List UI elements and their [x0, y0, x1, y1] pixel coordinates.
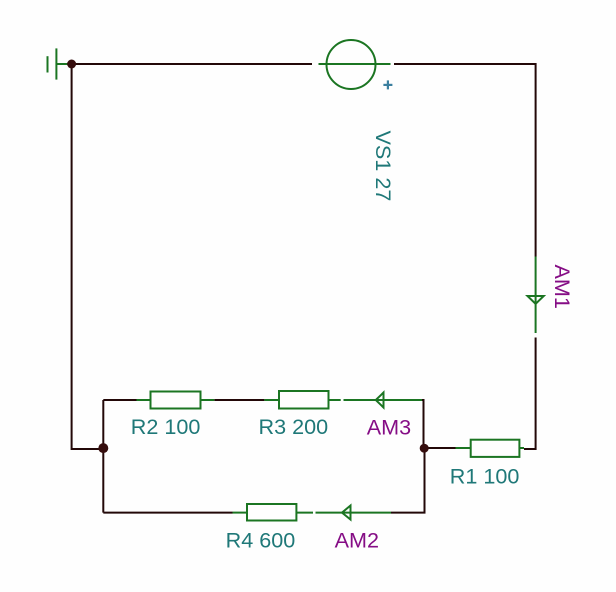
svg-text:AM2: AM2: [335, 527, 379, 552]
svg-text:VS1 27: VS1 27: [371, 131, 396, 202]
svg-text:AM3: AM3: [367, 415, 411, 440]
svg-text:R3 200: R3 200: [259, 414, 329, 439]
svg-text:AM1: AM1: [550, 265, 575, 309]
svg-text:R2 100: R2 100: [131, 414, 201, 439]
svg-text:R4 600: R4 600: [226, 527, 296, 552]
svg-text:R1 100: R1 100: [450, 464, 520, 489]
